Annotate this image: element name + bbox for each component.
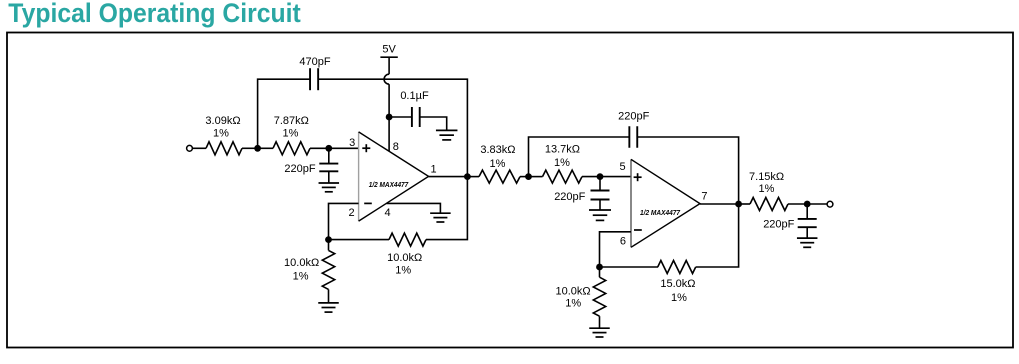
wire node E to R3 [328, 240, 330, 251]
svg-text:1%: 1% [213, 127, 229, 139]
wire C5 to node H [637, 137, 738, 204]
wire R6 to node G [582, 176, 600, 178]
svg-text:5V: 5V [382, 44, 396, 56]
capacitor C1 470pF [310, 68, 318, 90]
wire U1 pin 4 to ground [387, 203, 441, 213]
U1 device label 1/2 MAX4477 [369, 180, 409, 189]
node C junction [464, 173, 471, 180]
ground under C3 [436, 130, 458, 140]
U1 pin 8 label [393, 141, 399, 153]
wire R7 to ground [599, 316, 601, 328]
svg-text:10.0kΩ: 10.0kΩ [284, 257, 319, 269]
wire R1 to node A [242, 147, 258, 149]
wire node I to R8 [600, 266, 659, 268]
resistor R1 3.09k&#937; [206, 142, 242, 155]
svg-text:15.0kΩ: 15.0kΩ [660, 278, 695, 290]
svg-text:1%: 1% [759, 183, 775, 195]
svg-text:1%: 1% [283, 127, 299, 139]
wire C1 to node C [318, 79, 467, 176]
U2 device label 1/2 MAX4477 [640, 208, 681, 217]
svg-text:1: 1 [431, 163, 437, 175]
svg-text:1/2 MAX4477: 1/2 MAX4477 [369, 180, 409, 189]
svg-text:Typical Operating Circuit: Typical Operating Circuit [8, 0, 301, 28]
wire R9 to node J [788, 203, 807, 205]
resistor R5 3.83k&#937; [479, 170, 520, 183]
ground under R7 [589, 328, 610, 337]
wire node I to R7 [599, 267, 601, 277]
svg-text:3: 3 [349, 137, 355, 149]
wire node D to U1 pin 8 [388, 117, 390, 151]
C6 value label 220pF [763, 219, 794, 231]
C2 value label 220pF [284, 163, 315, 175]
svg-text:10.0kΩ: 10.0kΩ [387, 252, 422, 264]
wire node C to R5 [467, 176, 479, 178]
wire R4 to node C [426, 177, 467, 240]
wire U2 pin 7 output [700, 203, 739, 205]
resistor R2 7.87k&#937; [273, 142, 310, 155]
resistor R8 15.0k&#937; [658, 261, 696, 274]
wire node F up to C5 [529, 137, 630, 177]
capacitor C5 220pF [629, 126, 637, 148]
svg-text:1/2 MAX4477: 1/2 MAX4477 [640, 208, 681, 217]
resistor R7 10.0k&#937; [593, 277, 605, 316]
C1 value label 470pF [299, 56, 330, 68]
node I junction [596, 264, 603, 271]
wire C3 to ground [420, 117, 447, 130]
node D junction (V+ / bypass) [386, 114, 393, 121]
svg-text:7.15kΩ: 7.15kΩ [749, 171, 784, 183]
R5 value label 3.83k&#937; 1% [480, 144, 515, 170]
svg-text:1%: 1% [554, 157, 570, 169]
R4 value label 10.0k&#937; 1% [387, 252, 422, 277]
C3 value label 0.1&#181;F [400, 90, 429, 102]
U1 pin 2 label [349, 207, 355, 219]
node J junction [804, 201, 811, 208]
ground under C2 [319, 183, 340, 192]
svg-text:220pF: 220pF [284, 163, 315, 175]
ground under R3 [318, 303, 339, 312]
node H junction [735, 201, 742, 208]
wire node G to U2 pin 5 [600, 176, 631, 178]
output terminal [827, 201, 833, 207]
wire node F to R6 [529, 176, 543, 178]
svg-text:1%: 1% [490, 158, 506, 170]
R9 value label 7.15k&#937; 1% [749, 171, 784, 195]
wire R5 to node F [520, 176, 529, 178]
node G junction [597, 173, 604, 180]
svg-text:1%: 1% [565, 298, 581, 310]
op-amp U1 1/2 MAX4477 [359, 132, 429, 221]
C4 value label 220pF [554, 191, 585, 203]
capacitor C3 0.1&#181;F [412, 107, 420, 127]
svg-text:7: 7 [701, 191, 707, 203]
wire R2 to node B [310, 147, 329, 149]
U2 pin 6 label [620, 235, 626, 247]
node A junction [254, 145, 261, 152]
wire node H to R9 [739, 203, 750, 205]
wire input to R1 [193, 147, 206, 149]
svg-text:1%: 1% [395, 265, 411, 277]
svg-text:10.0kΩ: 10.0kΩ [555, 285, 590, 297]
resistor R4 10.0k&#937; [389, 233, 426, 246]
R1 value label 3.09k&#937; 1% [205, 115, 240, 139]
C5 value label 220pF [618, 111, 649, 123]
R2 value label 7.87k&#937; 1% [274, 115, 309, 139]
svg-text:6: 6 [620, 235, 626, 247]
wire node D to C3 [389, 116, 412, 118]
svg-text:220pF: 220pF [618, 111, 649, 123]
U2 pin 7 label [701, 191, 707, 203]
wire R8 to node H [696, 204, 739, 267]
node B junction [325, 145, 332, 152]
R7 value label 10.0k&#937; 1% [555, 285, 590, 309]
input terminal [187, 145, 193, 151]
U1 pin 1 label [431, 163, 437, 175]
wire node E to R4 [329, 239, 390, 241]
ground at U1 pin 4 [430, 213, 451, 222]
wire node A up to C1 [258, 79, 310, 148]
svg-text:2: 2 [349, 207, 355, 219]
svg-text:7.87kΩ: 7.87kΩ [274, 115, 309, 127]
svg-text:8: 8 [393, 141, 399, 153]
ground under C4 [589, 210, 611, 220]
wire U2 pin 6 [600, 232, 632, 267]
svg-text:470pF: 470pF [299, 56, 330, 68]
resistor R9 7.15k&#937; [750, 198, 788, 211]
title: Typical Operating Circuit [8, 0, 301, 28]
wire U1 pin 1 output [429, 176, 468, 178]
resistor R3 10.0k&#937; [322, 250, 334, 289]
svg-text:0.1µF: 0.1µF [400, 90, 429, 102]
wire U1 pin 2 [329, 203, 359, 239]
5V supply terminal [380, 57, 397, 74]
R8 value label 15.0k&#937; 1% [660, 278, 695, 304]
R3 value label 10.0k&#937; 1% [284, 257, 319, 283]
U2 pin 5 label [619, 161, 625, 173]
resistor R6 13.7k&#937; [543, 170, 583, 183]
svg-text:1%: 1% [293, 271, 309, 283]
op-amp U2 1/2 MAX4477 [631, 159, 700, 247]
svg-text:3.83kΩ: 3.83kΩ [480, 144, 515, 156]
svg-text:1%: 1% [671, 292, 687, 304]
svg-text:4: 4 [385, 207, 391, 219]
capacitor C6 220pF [798, 204, 817, 238]
U1 pin 3 label [349, 137, 355, 149]
U1 pin 4 label [385, 207, 391, 219]
svg-text:220pF: 220pF [763, 219, 794, 231]
capacitor C2 220pF [319, 148, 338, 183]
node E junction [325, 236, 332, 243]
svg-text:13.7kΩ: 13.7kΩ [545, 144, 580, 156]
wire 5V to U1 pin 8 node [388, 84, 390, 117]
capacitor C4 220pF [591, 177, 610, 210]
wire node J to output terminal [807, 203, 827, 205]
svg-text:5: 5 [619, 161, 625, 173]
wire hop over feedback wire [384, 74, 389, 84]
ground under C6 [797, 238, 818, 247]
svg-text:220pF: 220pF [554, 191, 585, 203]
svg-text:3.09kΩ: 3.09kΩ [205, 115, 240, 127]
R6 value label 13.7k&#937; 1% [545, 144, 580, 170]
wire node B to U1 pin 3 [329, 147, 359, 149]
wire node A to R2 [258, 147, 273, 149]
5V label [382, 44, 396, 56]
node F junction [525, 173, 532, 180]
wire R3 to ground [328, 289, 330, 303]
